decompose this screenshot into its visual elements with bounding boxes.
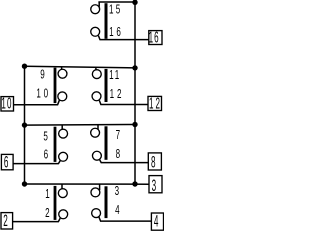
svg-text:1: 1: [109, 25, 113, 39]
terminal box 10: [1, 97, 14, 111]
svg-text:2: 2: [156, 95, 161, 113]
connector XP4 contact bar pins 3-4: [105, 186, 108, 218]
svg-text:9: 9: [40, 68, 44, 82]
svg-text:6: 6: [4, 152, 9, 171]
node junction dot right bus row2: [132, 65, 137, 70]
wire pin6 to box 6: [13, 161, 60, 164]
wire stub pin7: [97, 125, 99, 130]
pin 11 contact circle: [92, 70, 101, 79]
pin 4 contact circle: [92, 209, 101, 218]
pin 8 contact circle: [92, 151, 101, 160]
wire right bus vertical: [134, 2, 136, 184]
svg-text:4: 4: [115, 203, 119, 217]
pin 16 contact circle: [91, 27, 100, 36]
pin 15 contact circle: [91, 5, 100, 14]
wire net row4 left bus to box 3: [25, 183, 150, 185]
wire stub pin11: [95, 67, 97, 70]
svg-text:3: 3: [152, 176, 157, 195]
svg-text:1: 1: [115, 68, 119, 82]
svg-text:8: 8: [151, 152, 156, 171]
wire stub pin15: [98, 2, 100, 7]
svg-text:7: 7: [116, 128, 120, 142]
wire net row2 left bus to right bus: [25, 66, 136, 68]
terminal box 6: [1, 154, 13, 169]
terminal box 4: [151, 213, 163, 230]
wire net row3 left bus to right bus: [25, 124, 136, 127]
pin 1 contact circle: [58, 189, 67, 198]
wire pin10 to box 10: [14, 100, 60, 105]
svg-text:1: 1: [109, 3, 113, 17]
node junction dot left bus row4: [22, 181, 27, 186]
svg-text:1: 1: [1, 95, 6, 113]
pin 3 contact circle: [91, 188, 100, 197]
wire stub pin3: [99, 184, 101, 190]
pin 6 contact circle: [59, 152, 68, 161]
pin 7 contact circle: [91, 128, 100, 137]
svg-text:2: 2: [117, 87, 121, 101]
terminal box 12: [148, 96, 162, 110]
node junction dot right bus row4: [132, 181, 137, 186]
node junction dot left bus row2: [22, 63, 27, 68]
wire stub pin1: [61, 184, 63, 189]
svg-text:4: 4: [154, 211, 159, 230]
wire stub pin5: [61, 125, 63, 129]
connector XP5 contact bar pins 9-10: [54, 68, 57, 103]
wire left bus vertical: [24, 66, 26, 184]
svg-text:0: 0: [44, 87, 48, 101]
terminal box 8: [148, 153, 161, 170]
wire stub pin9: [61, 67, 63, 70]
pin 2 contact circle: [59, 210, 68, 219]
svg-text:5: 5: [43, 129, 47, 143]
svg-text:2: 2: [3, 211, 8, 230]
connector XP1 contact bar pins 15-16: [105, 3, 108, 39]
connector XP3 contact bar pins 7-8: [105, 126, 108, 160]
svg-text:0: 0: [7, 95, 12, 113]
svg-text:6: 6: [116, 25, 120, 39]
svg-text:1: 1: [149, 95, 154, 113]
svg-text:3: 3: [115, 184, 119, 198]
svg-text:5: 5: [116, 3, 120, 17]
svg-text:6: 6: [154, 28, 159, 46]
pin 5 contact circle: [59, 129, 68, 138]
wire net row1 pin15 to right bus: [98, 1, 135, 3]
wire pin2 to box 2: [13, 218, 61, 221]
connector XP7 contact bar pins 1-2: [54, 186, 57, 220]
svg-text:6: 6: [44, 148, 48, 162]
svg-text:1: 1: [110, 87, 114, 101]
terminal box 16: [149, 31, 162, 45]
terminal box 3: [149, 176, 162, 193]
svg-text:1: 1: [109, 68, 113, 82]
pin 9 contact circle: [58, 69, 67, 78]
connector XP6 contact bar pins 5-6: [54, 127, 57, 162]
pin 12 contact circle: [92, 92, 101, 101]
wire pin4 to box 4: [99, 217, 151, 221]
node junction dot right bus row3: [132, 122, 137, 127]
node junction dot right bus row1: [132, 0, 137, 5]
svg-text:1: 1: [36, 87, 40, 101]
wire pin8 to box 8: [100, 160, 149, 163]
svg-text:2: 2: [45, 206, 49, 220]
wire pin16 to box 16: [98, 36, 148, 40]
connector XP2 contact bar pins 11-12: [105, 69, 108, 102]
wire pin12 to box 12: [99, 100, 148, 104]
pin 10 contact circle: [58, 92, 67, 101]
terminal box 2: [1, 213, 13, 229]
svg-text:1: 1: [149, 28, 154, 46]
node junction dot left bus row3: [22, 122, 27, 127]
svg-text:8: 8: [116, 147, 120, 161]
svg-text:1: 1: [45, 187, 49, 201]
